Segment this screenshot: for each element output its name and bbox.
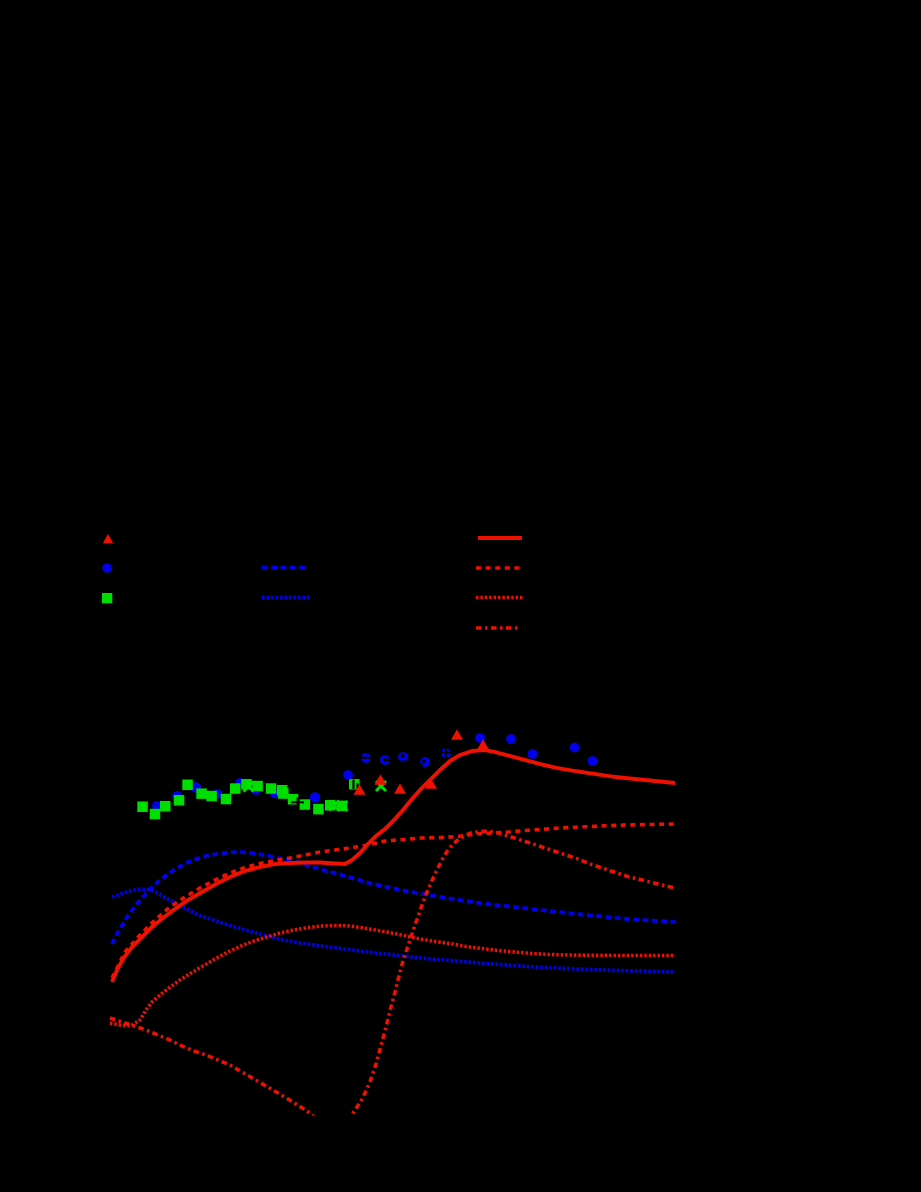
legend: blue dashed line sample (262, 566, 308, 570)
curve: red dotted theory (110, 926, 675, 1027)
data: green squares band (137, 779, 359, 819)
legend: blue circle marker (102, 563, 111, 572)
data: blue circles upper series (343, 733, 597, 780)
data: blue circles band (partially hidden) (152, 778, 320, 811)
legend: red dash-dot line sample (476, 626, 521, 630)
data: red triangle series (354, 729, 490, 794)
occluding black glyph fragments over markers (291, 748, 451, 807)
legend: red dashed line sample (476, 566, 522, 570)
curve: red solid theory (112, 750, 675, 982)
legend: red triangle marker (103, 534, 113, 543)
legend: green square marker (102, 593, 112, 603)
curve: red dashed theory (112, 824, 675, 978)
legend: red solid line sample (478, 536, 522, 540)
curve: blue dotted theory (112, 889, 675, 972)
data: green cross markers (244, 781, 387, 811)
legend: red dotted line sample (476, 596, 523, 600)
legend: blue dotted line sample (262, 596, 309, 600)
curve: blue dashed theory (112, 852, 675, 944)
